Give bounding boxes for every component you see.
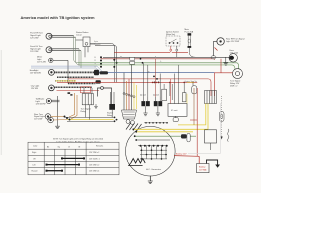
generator ground stub (149, 176, 151, 181)
engine stop switch box (183, 93, 187, 102)
junction dots red bus (152, 82, 194, 84)
red tick (215, 48, 218, 51)
wire color labels (120, 57, 162, 74)
cable wavy symbol (228, 129, 229, 142)
connector on green lead (181, 134, 187, 138)
label L2 (30, 45, 42, 53)
svg-text:12V 23W: 12V 23W (30, 37, 38, 39)
label relay right (230, 81, 241, 88)
ground tail (55, 126, 60, 128)
yellow wires right column (178, 104, 208, 130)
wire black bus horn (103, 56, 229, 58)
table connection bars (47, 158, 85, 170)
svg-text:(Main Sw): (Main Sw) (166, 34, 175, 36)
ignition switch dashed box (166, 36, 180, 46)
svg-text:12V 23W x 4: 12V 23W x 4 (89, 171, 99, 173)
svg-text:Right: Right (32, 151, 37, 154)
wire dark red bus (101, 58, 215, 60)
svg-text:Ign Coil: Ign Coil (153, 95, 159, 97)
brown vertical right (193, 88, 195, 125)
tail brake light lamp (46, 98, 59, 103)
connection table (28, 142, 119, 175)
relay box A (82, 88, 93, 120)
resistor box top (76, 37, 101, 57)
svg-text:12V 60/55W: 12V 60/55W (30, 72, 41, 74)
connector dots feed (100, 56, 118, 68)
condenser B (109, 92, 115, 117)
svg-text:12V 23W x 2: 12V 23W x 2 (89, 165, 99, 167)
connector blob switch ladder (96, 80, 101, 83)
label city light (31, 85, 40, 90)
bundle connector ovals (123, 93, 135, 98)
ground battery triangle (215, 165, 220, 168)
svg-text:Battery 12V: Battery 12V (176, 153, 187, 156)
spark plugs comb (126, 123, 142, 132)
svg-text:B: B (95, 57, 96, 59)
front signal drop wires (74, 35, 82, 68)
red vertical right (196, 88, 198, 156)
wire red switch area (57, 90, 100, 92)
svg-text:Light 12V 23W: Light 12V 23W (226, 40, 239, 43)
svg-text:BL: BL (148, 72, 150, 74)
label relay box A (81, 109, 92, 113)
generator yellow leads (133, 129, 208, 132)
red connector outline (81, 87, 91, 93)
wire green bus 1 (78, 63, 239, 69)
ignition coil 2 (154, 97, 162, 116)
label TS lamp right (226, 39, 245, 43)
wire green bus 2 (80, 65, 235, 69)
dark red bend to right column (214, 59, 216, 60)
yellow/black wire (55, 80, 76, 82)
blue wire pair to meter (31, 66, 103, 73)
label headlight (30, 69, 41, 74)
wire red feed to switch (114, 51, 188, 53)
striped wire city (55, 86, 93, 88)
dotted clutch cable line (221, 96, 223, 137)
ground horn (223, 57, 228, 65)
junction dots rear bundle (64, 116, 118, 123)
junction cluster dots (153, 76, 159, 84)
generator internal ladder (140, 146, 167, 159)
drop wires mid right (164, 82, 193, 100)
generator green lead (135, 135, 196, 137)
rear harness bundle (65, 117, 114, 121)
connector boxes on buses (130, 57, 135, 64)
lamp L2 front LH turn signal (46, 47, 81, 53)
label condenser (107, 112, 113, 117)
generator connector dot row (138, 145, 168, 147)
svg-text:Relay: Relay (81, 111, 86, 113)
svg-text:12V 8Ah: 12V 8Ah (199, 168, 207, 171)
label rear turn signals (34, 114, 45, 121)
striped wire headlight (55, 71, 95, 73)
plug connector housing (122, 110, 137, 119)
connector blob headlamp harness (94, 70, 99, 75)
striped wire dimmer (57, 76, 94, 78)
label meter light (37, 56, 46, 64)
note text (53, 138, 103, 144)
fuse small mid (192, 86, 197, 94)
wire tag labels (95, 57, 97, 69)
turn signal lamp top right (214, 38, 225, 56)
rear turn signal lamps (45, 114, 53, 123)
dot row above generator (144, 122, 168, 124)
svg-text:Relay: Relay (107, 115, 112, 117)
red wire to battery (174, 156, 199, 164)
svg-text:Bk: Bk (47, 147, 49, 149)
svg-text:Color: Color (33, 146, 38, 148)
orange wires rear signals (51, 93, 77, 120)
bus drop wires to coils (143, 59, 160, 97)
svg-text:12V 23W: 12V 23W (30, 51, 38, 53)
faint crease line (188, 103, 220, 153)
wire staple to starter relay (98, 87, 112, 104)
connector near igniter (173, 118, 178, 122)
red wires right column (215, 59, 233, 96)
svg-text:12V 3.4W: 12V 3.4W (37, 61, 46, 63)
wire red bus long (57, 81, 197, 83)
junction dots bus (140, 58, 144, 64)
label resistor (76, 31, 88, 36)
ground generator (148, 181, 153, 184)
plug caps (126, 120, 130, 124)
scan edge artifact (0, 50, 2, 155)
bus drop wires to igniter (171, 65, 195, 104)
svg-text:Hazard: Hazard (32, 171, 38, 173)
pickup coil rect (162, 89, 167, 101)
battery ground wire (207, 160, 218, 165)
city light lamp (49, 85, 55, 91)
striped wire switch ladder (68, 82, 96, 84)
svg-text:23W x 2: 23W x 2 (230, 85, 238, 87)
battery box (197, 164, 209, 173)
svg-text:IC unit: IC unit (171, 109, 178, 112)
tail ground line (57, 96, 59, 126)
table header texts (33, 146, 103, 149)
label fuse F1 (185, 29, 194, 33)
ignition coil 1 (141, 97, 149, 116)
label horn (230, 50, 239, 54)
lamp L1 front RH turn signal (46, 33, 76, 39)
harness to plug connector (124, 65, 136, 110)
connector on blue bus (100, 71, 109, 74)
fuse on green lead (187, 134, 190, 142)
table row labels (32, 151, 38, 173)
svg-text:Fuse 20A: Fuse 20A (185, 30, 194, 33)
fuse F3 right (219, 112, 224, 122)
svg-text:Gy: Gy (58, 147, 60, 149)
svg-text:12V 23W: 12V 23W (34, 119, 42, 121)
svg-text:12V 3.4W x 1: 12V 3.4W x 1 (89, 158, 100, 160)
horn (229, 54, 237, 62)
wire blue main bus (99, 72, 215, 74)
meter light lamp (49, 58, 68, 83)
generator dark lead (136, 139, 170, 141)
svg-text:Remarks: Remarks (96, 146, 103, 148)
svg-text:Conn.: Conn. (94, 43, 99, 45)
oval connector on bus (211, 56, 216, 59)
svg-text:America model with TB ignition: America model with TB ignition system (21, 16, 95, 20)
IC igniter box (168, 104, 187, 117)
ignition switch contacts (169, 39, 178, 44)
svg-text:12V 8/27W: 12V 8/27W (36, 103, 46, 105)
rectifier box R2 (205, 130, 217, 143)
vertical feed pair (90, 44, 117, 83)
headlight lamp (49, 69, 55, 75)
wire red bus lower (68, 79, 211, 96)
svg-text:Circuit: Circuit (76, 33, 82, 36)
svg-text:12V 23W x 2: 12V 23W x 2 (89, 152, 99, 154)
AC generator circle (126, 126, 176, 176)
label connector 4p (94, 41, 99, 45)
stator winding zigzag (131, 159, 145, 164)
svg-text:12V 2.5A: 12V 2.5A (230, 52, 239, 55)
ignition switch terminals (170, 46, 178, 57)
label ignition switch (166, 30, 179, 35)
svg-text:Battery: Battery (199, 166, 205, 169)
label tail light (36, 99, 46, 106)
switch contacts small (68, 92, 71, 94)
table right column texts (89, 152, 100, 173)
svg-text:Left: Left (33, 164, 36, 167)
svg-text:12V 4W: 12V 4W (31, 88, 38, 90)
turn signal relay right (233, 69, 243, 79)
svg-text:A.C. Generator: A.C. Generator (146, 168, 161, 171)
fuse F1 main (188, 33, 197, 57)
hatch box right R1 (205, 91, 217, 104)
svg-text:NOTE: Turn Signal Lights and T: NOTE: Turn Signal Lights and Turn Signal… (53, 138, 103, 141)
ground small mid (94, 104, 98, 109)
red stub (190, 119, 197, 121)
label L1 (30, 32, 43, 40)
